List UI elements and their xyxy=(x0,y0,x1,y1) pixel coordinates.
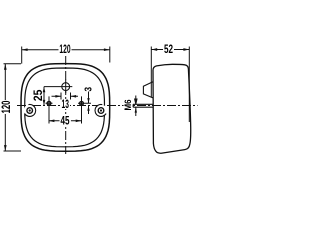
right screw boss arc xyxy=(95,105,107,117)
dimension 25: bottom arrow xyxy=(43,100,46,106)
svg-text:45: 45 xyxy=(61,114,70,128)
dimension 120 left: top arrow xyxy=(4,64,7,70)
vertical centerline front view xyxy=(65,56,67,154)
M6 stud xyxy=(133,104,153,107)
svg-text:M6: M6 xyxy=(123,100,134,111)
dimension 13: right arrow xyxy=(71,95,77,98)
bulb circle crosshair horizontal xyxy=(44,86,72,88)
dimension 3: down arrow xyxy=(87,98,89,103)
dimension 120 top: right arrow xyxy=(104,48,110,51)
dimension 25: top arrow xyxy=(43,87,46,93)
dimension 45: right arrow xyxy=(76,120,82,123)
dimension 120 top: extension lines xyxy=(22,47,110,64)
dimension 120 top: dim line xyxy=(22,49,110,51)
bulb circle crosshair vertical xyxy=(65,80,67,94)
front view inner lens contour xyxy=(25,68,105,147)
dimension 52: dim line xyxy=(151,49,189,51)
dimension 120 left: bottom arrow xyxy=(4,145,7,151)
dimension 3: lower stub xyxy=(88,106,90,115)
dimension 13: text background xyxy=(61,100,71,109)
bulb circle xyxy=(62,83,70,91)
svg-text:13: 13 xyxy=(62,97,70,111)
left screw xyxy=(27,108,33,114)
svg-text:120: 120 xyxy=(0,100,13,113)
left hole crosshair xyxy=(46,96,53,123)
svg-text:25: 25 xyxy=(31,89,45,101)
right hole crosshair xyxy=(78,96,91,123)
dimension 120 left: dim line xyxy=(4,64,6,151)
dimension 120 top: left arrow xyxy=(22,48,28,51)
dimension 52: extension lines xyxy=(151,47,189,123)
side view mounting tab xyxy=(143,82,153,98)
svg-text:120: 120 xyxy=(59,42,70,56)
dimension 45: text background xyxy=(60,116,71,126)
dimension 25: dim line xyxy=(43,87,45,106)
M6 dim down arrow xyxy=(135,96,137,105)
right hole xyxy=(80,101,84,105)
dimension 3: up arrow below xyxy=(87,106,89,111)
dimension 52: right arrow xyxy=(183,48,189,51)
svg-text:52: 52 xyxy=(164,42,173,56)
dimension 13: extension ticks xyxy=(61,93,71,100)
dimension 13: left arrow xyxy=(55,95,61,98)
dimension 3: dim line above xyxy=(88,92,90,104)
left hole xyxy=(47,101,51,105)
dimension 52: left arrow xyxy=(151,48,157,51)
dimension 13: leader lines xyxy=(52,95,79,97)
dimension 45: extension lines xyxy=(49,112,82,124)
dimension 120 left: extension lines xyxy=(4,64,22,151)
horizontal centerline xyxy=(17,105,198,107)
right screw xyxy=(98,108,104,114)
dimension 45: dim line xyxy=(49,120,82,122)
M6 dim up arrow xyxy=(135,107,137,116)
svg-text:3: 3 xyxy=(83,87,94,92)
dimension 45: left arrow xyxy=(49,120,55,123)
left screw boss arc xyxy=(24,105,36,117)
front view outer contour xyxy=(21,64,110,152)
M6 text background xyxy=(124,99,132,111)
side view body outline xyxy=(153,64,191,153)
